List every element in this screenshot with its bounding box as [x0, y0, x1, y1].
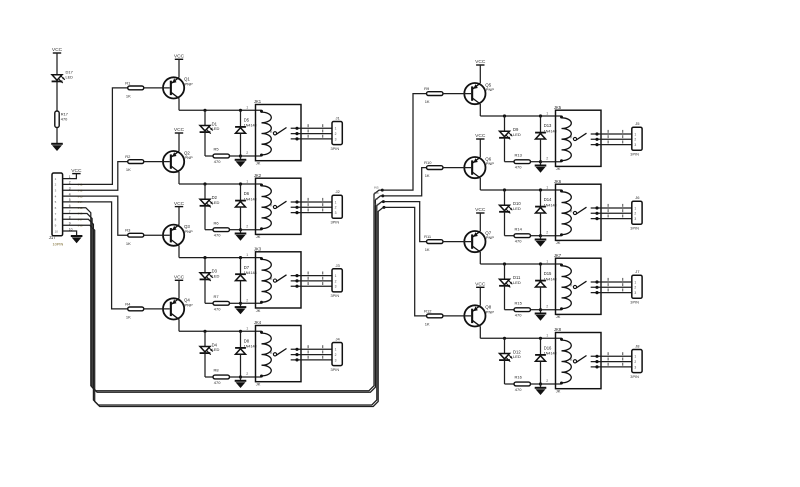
svg-text:VCC: VCC: [475, 59, 486, 65]
svg-text:10: 10: [55, 229, 59, 233]
resistor R1 (base, 1K): [125, 80, 144, 98]
resistor R4 (base, 1K): [125, 301, 144, 319]
LED D1: [200, 110, 220, 133]
svg-text:D6: D6: [244, 191, 250, 196]
svg-text:JK: JK: [256, 161, 261, 166]
svg-text:PNP: PNP: [185, 82, 194, 87]
svg-text:1N4148: 1N4148: [244, 345, 257, 349]
svg-text:3: 3: [634, 217, 636, 221]
ground: [235, 156, 247, 167]
wire R4 to Q4 base: [144, 308, 170, 310]
relay JK3 contact wires to J3: [291, 272, 332, 288]
wire J17 pin 9 bus to right bank (net IN8): [63, 207, 384, 406]
svg-text:2: 2: [246, 372, 248, 376]
svg-text:PNP: PNP: [486, 87, 495, 92]
svg-text:1K: 1K: [425, 247, 430, 252]
wire D9 cathode to R13: [505, 138, 515, 162]
wire J17 pin 3 to R2 (net IN2): [63, 162, 128, 191]
svg-text:470: 470: [214, 380, 221, 385]
svg-text:1: 1: [546, 111, 548, 115]
svg-text:2: 2: [634, 360, 636, 364]
relay JK4 contact wires to J4: [291, 345, 332, 361]
transistor Q4: [163, 298, 193, 320]
svg-text:R16: R16: [515, 375, 523, 380]
junction at ground node: [539, 160, 542, 163]
wire Q8 collector to relay rail: [480, 326, 561, 338]
wire node to relay coil pin 2: [241, 229, 262, 231]
svg-text:470: 470: [61, 116, 68, 121]
diode D13 (1N4148): [535, 116, 557, 162]
wire R12 to Q8 base: [443, 315, 471, 317]
relay JK8 contact wires to J8: [591, 352, 632, 368]
LED D10: [499, 190, 521, 213]
svg-text:3: 3: [335, 137, 337, 141]
svg-text:R14: R14: [515, 226, 523, 231]
junction at D1 anode: [203, 109, 206, 112]
wire VCC to D17: [56, 53, 58, 75]
ground: [51, 144, 63, 151]
svg-text:470: 470: [515, 313, 522, 318]
ground: [235, 303, 247, 314]
connector J4 (3PIN): [331, 337, 343, 372]
svg-text:LED: LED: [212, 126, 220, 131]
junction at ground node: [239, 302, 242, 305]
wire Q2 collector to relay rail: [179, 172, 262, 184]
svg-text:VCC: VCC: [71, 168, 82, 174]
LED D9: [499, 116, 521, 139]
wire R3 to Q3 base: [144, 234, 170, 236]
svg-text:1N4148: 1N4148: [244, 271, 257, 275]
ground at J17: [71, 236, 83, 243]
junction node IN5: [381, 189, 384, 192]
svg-text:3PIN: 3PIN: [331, 367, 340, 372]
svg-text:R10: R10: [424, 160, 432, 165]
svg-text:1K: 1K: [425, 322, 430, 327]
svg-text:1: 1: [634, 355, 636, 359]
wire Q3 collector to relay rail: [179, 246, 262, 258]
svg-text:JK5: JK5: [554, 105, 562, 110]
connector J6 (3PIN): [630, 195, 642, 230]
wire Q6 emitter to VCC: [479, 139, 481, 157]
wire R13 to ground node: [531, 161, 541, 163]
svg-text:2: 2: [634, 138, 636, 142]
svg-text:JK7: JK7: [554, 253, 562, 258]
svg-text:PNP: PNP: [185, 303, 194, 308]
net labels at J17 pins: [78, 183, 83, 228]
svg-text:IN6: IN6: [374, 191, 379, 195]
svg-text:1: 1: [335, 274, 337, 278]
relay JK6: [546, 179, 601, 245]
svg-text:1K: 1K: [126, 315, 131, 320]
wire Q3 emitter to VCC: [178, 207, 180, 225]
wire Q4 collector to relay rail: [179, 319, 262, 331]
svg-text:470: 470: [515, 239, 522, 244]
wire R2 to Q2 base: [144, 161, 170, 163]
VCC power symbol for Q7: [475, 207, 486, 213]
svg-text:JK: JK: [256, 382, 261, 387]
wire J17 pin 6 bus to right bank (net IN5): [63, 190, 383, 391]
svg-text:D7: D7: [244, 265, 250, 270]
J17 pin numbers: [69, 175, 73, 231]
svg-text:1K: 1K: [425, 99, 430, 104]
svg-text:2: 2: [546, 231, 548, 235]
wire net IN7 to R11: [383, 202, 426, 242]
junction at D9 anode: [503, 114, 506, 117]
resistor R12 (base, 1K): [424, 308, 443, 326]
wire node to relay coil pin 2: [541, 235, 562, 237]
svg-text:2: 2: [546, 157, 548, 161]
svg-text:IN7: IN7: [374, 197, 379, 201]
svg-text:3PIN: 3PIN: [630, 300, 639, 305]
junction at D16 cathode: [539, 337, 542, 340]
wire Q7 emitter to VCC: [479, 213, 481, 231]
svg-text:1: 1: [246, 179, 248, 183]
junction at ground node: [539, 234, 542, 237]
wire node to relay coil pin 2: [241, 155, 262, 157]
wire net IN6 to R10: [383, 168, 427, 196]
svg-text:1N4148: 1N4148: [244, 197, 257, 201]
junction at D7 cathode: [239, 256, 242, 259]
svg-text:LED: LED: [212, 274, 220, 279]
svg-text:JK: JK: [256, 234, 261, 239]
relay JK5: [546, 105, 601, 171]
svg-text:D15: D15: [544, 271, 552, 276]
svg-text:D14: D14: [544, 197, 552, 202]
net label IN6: [374, 191, 379, 195]
svg-text:2: 2: [335, 353, 337, 357]
relay JK7: [546, 253, 601, 319]
wire Q5 emitter to VCC: [479, 65, 481, 83]
diode D6 (1N4148): [235, 184, 257, 230]
svg-text:3: 3: [335, 285, 337, 289]
svg-text:1: 1: [546, 259, 548, 263]
svg-text:LED: LED: [513, 132, 521, 137]
wire D12 cathode to R16: [505, 360, 515, 384]
svg-text:2: 2: [335, 279, 337, 283]
svg-text:3PIN: 3PIN: [630, 152, 639, 157]
svg-text:3: 3: [634, 365, 636, 369]
svg-text:VCC: VCC: [174, 275, 185, 281]
junction at D4 anode: [203, 330, 206, 333]
svg-text:470: 470: [214, 233, 221, 238]
diode D16 (1N4148): [535, 338, 557, 384]
svg-text:1: 1: [546, 334, 548, 338]
VCC power symbol (indicator): [52, 47, 63, 53]
junction at D8 cathode: [239, 330, 242, 333]
ground: [235, 377, 247, 388]
wire R14 to ground node: [531, 235, 541, 237]
wire Q4 emitter to VCC: [178, 280, 180, 298]
svg-text:R11: R11: [424, 234, 432, 239]
svg-text:VCC: VCC: [52, 47, 63, 53]
LED D3: [200, 258, 220, 281]
relay JK4: [246, 320, 301, 386]
svg-text:D8: D8: [244, 339, 250, 344]
svg-text:2: 2: [246, 298, 248, 302]
junction at D10 anode: [503, 188, 506, 191]
resistor R5 (470): [213, 147, 230, 164]
svg-text:JK: JK: [556, 314, 561, 319]
svg-text:1: 1: [246, 106, 248, 110]
svg-text:VCC: VCC: [475, 207, 486, 213]
junction at ground node: [539, 382, 542, 385]
svg-text:D13: D13: [544, 123, 552, 128]
svg-text:JK3: JK3: [254, 246, 262, 251]
svg-text:JK4: JK4: [254, 320, 262, 325]
junction at D14 cathode: [539, 188, 542, 191]
wire R6 to ground node: [230, 229, 241, 231]
svg-text:2: 2: [546, 379, 548, 383]
junction at ground node: [239, 228, 242, 231]
svg-text:JK: JK: [556, 240, 561, 245]
junction at D2 anode: [203, 182, 206, 185]
wire D10 cathode to R14: [505, 212, 515, 236]
svg-text:2: 2: [634, 286, 636, 290]
net label IN5: [374, 185, 379, 189]
resistor R13 (470): [514, 152, 531, 169]
svg-text:1N4148: 1N4148: [544, 277, 557, 281]
svg-text:1: 1: [335, 348, 337, 352]
svg-text:VCC: VCC: [174, 54, 185, 60]
svg-text:JK8: JK8: [554, 327, 562, 332]
svg-text:LED: LED: [513, 206, 521, 211]
wire node to relay coil pin 2: [241, 302, 262, 304]
resistor R6 (470): [213, 220, 230, 237]
diode D14 (1N4148): [535, 190, 557, 236]
resistor R16 (470): [514, 375, 531, 392]
svg-text:R2: R2: [125, 154, 131, 159]
resistor R8 (470): [213, 368, 230, 385]
svg-text:470: 470: [515, 165, 522, 170]
wire R10 to Q6 base: [443, 167, 471, 169]
connector J7 (3PIN): [630, 269, 642, 304]
svg-text:D5: D5: [244, 118, 250, 123]
svg-text:JK: JK: [556, 389, 561, 394]
svg-text:10PIN: 10PIN: [53, 242, 64, 247]
svg-text:R3: R3: [125, 228, 131, 233]
svg-text:LED: LED: [212, 347, 220, 352]
resistor R9 (base, 1K): [424, 86, 443, 104]
svg-text:PNP: PNP: [185, 155, 194, 160]
svg-text:1N4148: 1N4148: [244, 124, 257, 128]
svg-text:1: 1: [634, 206, 636, 210]
svg-text:R4: R4: [125, 301, 131, 306]
wire R7 to ground node: [230, 302, 241, 304]
svg-text:LED: LED: [212, 200, 220, 205]
LED D12: [499, 338, 521, 361]
resistor R3 (base, 1K): [125, 228, 144, 246]
junction at D6 cathode: [239, 182, 242, 185]
svg-text:PNP: PNP: [185, 229, 194, 234]
VCC power symbol for Q8: [475, 282, 486, 288]
svg-text:1: 1: [335, 200, 337, 204]
svg-text:3: 3: [335, 211, 337, 215]
wire Q7 collector to relay rail: [480, 252, 561, 264]
wire J17 pin 4 to R3 (net IN3): [63, 196, 128, 235]
svg-text:1K: 1K: [126, 94, 131, 99]
VCC power symbol at J17 pin 1: [71, 168, 82, 174]
wire net IN8 to R12: [384, 207, 427, 316]
VCC power symbol for Q6: [475, 133, 486, 139]
transistor Q6: [464, 156, 494, 178]
wire R17 to ground: [56, 128, 58, 144]
svg-text:2: 2: [246, 151, 248, 155]
connector J2 (3PIN): [331, 189, 343, 224]
svg-text:R9: R9: [424, 86, 430, 91]
svg-text:1: 1: [246, 253, 248, 257]
svg-text:470: 470: [515, 387, 522, 392]
svg-text:R5: R5: [214, 147, 220, 152]
wire Q6 collector to relay rail: [480, 178, 561, 190]
svg-text:VCC: VCC: [475, 133, 486, 139]
junction at ground node: [239, 375, 242, 378]
svg-text:1: 1: [634, 280, 636, 284]
diode D7 (1N4148): [235, 258, 257, 304]
wire D17 to R17: [56, 81, 58, 111]
svg-text:1: 1: [546, 185, 548, 189]
resistor R2 (base, 1K): [125, 154, 144, 172]
resistor R17 (470): [55, 111, 68, 128]
transistor Q1: [163, 77, 193, 99]
svg-text:LED: LED: [66, 75, 74, 79]
svg-text:1: 1: [246, 327, 248, 331]
svg-text:3PIN: 3PIN: [630, 226, 639, 231]
wire node to relay coil pin 2: [541, 383, 562, 385]
ground: [535, 236, 547, 247]
svg-text:JK6: JK6: [554, 179, 562, 184]
wire Q8 emitter to VCC: [479, 287, 481, 305]
svg-text:J17: J17: [49, 235, 56, 240]
svg-text:JK2: JK2: [254, 173, 262, 178]
svg-text:3PIN: 3PIN: [331, 220, 340, 225]
connector J1 (3PIN): [331, 116, 343, 151]
relay JK3: [246, 246, 301, 312]
svg-text:R6: R6: [214, 220, 220, 225]
resistor R11 (base, 1K): [424, 234, 443, 252]
wire R1 to Q1 base: [144, 87, 170, 89]
VCC power symbol for Q4: [174, 275, 185, 281]
transistor Q7: [464, 230, 494, 252]
svg-text:IN8: IN8: [374, 203, 379, 207]
net label IN8: [374, 203, 379, 207]
VCC power symbol for Q5: [475, 59, 486, 65]
relay JK2 contact wires to J2: [291, 198, 332, 214]
junction at ground node: [239, 154, 242, 157]
wire R15 to ground node: [531, 309, 541, 311]
svg-text:3PIN: 3PIN: [331, 146, 340, 151]
wire net IN5 to R9: [382, 94, 426, 191]
LED D17: [52, 70, 74, 83]
svg-text:3: 3: [634, 143, 636, 147]
svg-text:VCC: VCC: [174, 201, 185, 207]
connector J17 (10PIN header): [49, 173, 64, 247]
svg-text:470: 470: [214, 159, 221, 164]
diode D15 (1N4148): [535, 264, 557, 310]
svg-text:JK1: JK1: [254, 99, 262, 104]
relay JK1 contact wires to J1: [291, 124, 332, 140]
svg-text:3: 3: [634, 291, 636, 295]
svg-text:1N4148: 1N4148: [544, 129, 557, 133]
svg-text:1: 1: [634, 132, 636, 136]
ground: [535, 162, 547, 173]
svg-text:R1: R1: [125, 80, 131, 85]
svg-text:D17: D17: [66, 70, 74, 75]
VCC power symbol for Q3: [174, 201, 185, 207]
svg-text:1N4148: 1N4148: [544, 352, 557, 356]
junction node IN6: [381, 194, 384, 197]
svg-text:3: 3: [335, 358, 337, 362]
connector J8 (3PIN): [630, 344, 642, 379]
svg-text:470: 470: [214, 306, 221, 311]
resistor R10 (base, 1K): [424, 160, 443, 178]
ground: [535, 310, 547, 321]
resistor R7 (470): [213, 294, 230, 311]
wire J17 pin 1 to VCC: [63, 174, 77, 179]
wire D4 cathode to R8: [205, 353, 213, 377]
connector J5 (3PIN): [630, 121, 642, 156]
transistor Q2: [163, 150, 193, 172]
VCC power symbol for Q2: [174, 127, 185, 133]
svg-text:3PIN: 3PIN: [331, 293, 340, 298]
wire J17 pin 5 to R4 (net IN4): [63, 202, 128, 309]
junction node IN7: [382, 200, 385, 203]
wire R8 to ground node: [230, 376, 241, 378]
junction at D15 cathode: [539, 262, 542, 265]
svg-text:2: 2: [546, 305, 548, 309]
wire R16 to ground node: [531, 383, 541, 385]
svg-text:JK: JK: [256, 308, 261, 313]
resistor R14 (470): [514, 226, 531, 243]
transistor Q8: [464, 305, 494, 327]
wire node to relay coil pin 2: [241, 376, 262, 378]
svg-text:2: 2: [335, 206, 337, 210]
wire R11 to Q7 base: [443, 241, 471, 243]
wire node to relay coil pin 2: [541, 309, 562, 311]
svg-text:1K: 1K: [126, 241, 131, 246]
svg-text:D16: D16: [544, 346, 552, 351]
svg-text:1: 1: [335, 127, 337, 131]
svg-text:LED: LED: [513, 280, 521, 285]
junction node IN8: [383, 206, 386, 209]
svg-text:R8: R8: [214, 368, 220, 373]
wire Q5 collector to relay rail: [480, 104, 561, 116]
junction at ground node: [539, 308, 542, 311]
wire J17 pin 7 bus to right bank (net IN6): [63, 196, 383, 392]
net label IN7: [374, 197, 379, 201]
wire J17 pin 10 to ground: [63, 231, 77, 236]
wire J17 pin 2 to R1 (net IN1): [63, 88, 128, 184]
relay JK5 contact wires to J5: [591, 130, 632, 146]
svg-text:PNP: PNP: [486, 161, 495, 166]
VCC power symbol for Q1: [174, 54, 185, 60]
relay JK1: [246, 99, 301, 165]
svg-text:JK: JK: [556, 166, 561, 171]
svg-text:2: 2: [335, 132, 337, 136]
svg-text:R15: R15: [515, 300, 523, 305]
svg-text:VCC: VCC: [174, 127, 185, 133]
wire J17 pin 8 bus to right bank (net IN7): [63, 202, 384, 405]
junction at D11 anode: [503, 262, 506, 265]
LED D11: [499, 264, 521, 287]
junction at D12 anode: [503, 337, 506, 340]
wire D1 cathode to R5: [205, 132, 213, 156]
LED D2: [200, 184, 220, 207]
wire Q1 emitter to VCC: [178, 59, 180, 77]
wire Q2 emitter to VCC: [178, 133, 180, 151]
svg-text:R13: R13: [515, 152, 523, 157]
relay JK6 contact wires to J6: [591, 204, 632, 220]
svg-text:R12: R12: [424, 308, 432, 313]
